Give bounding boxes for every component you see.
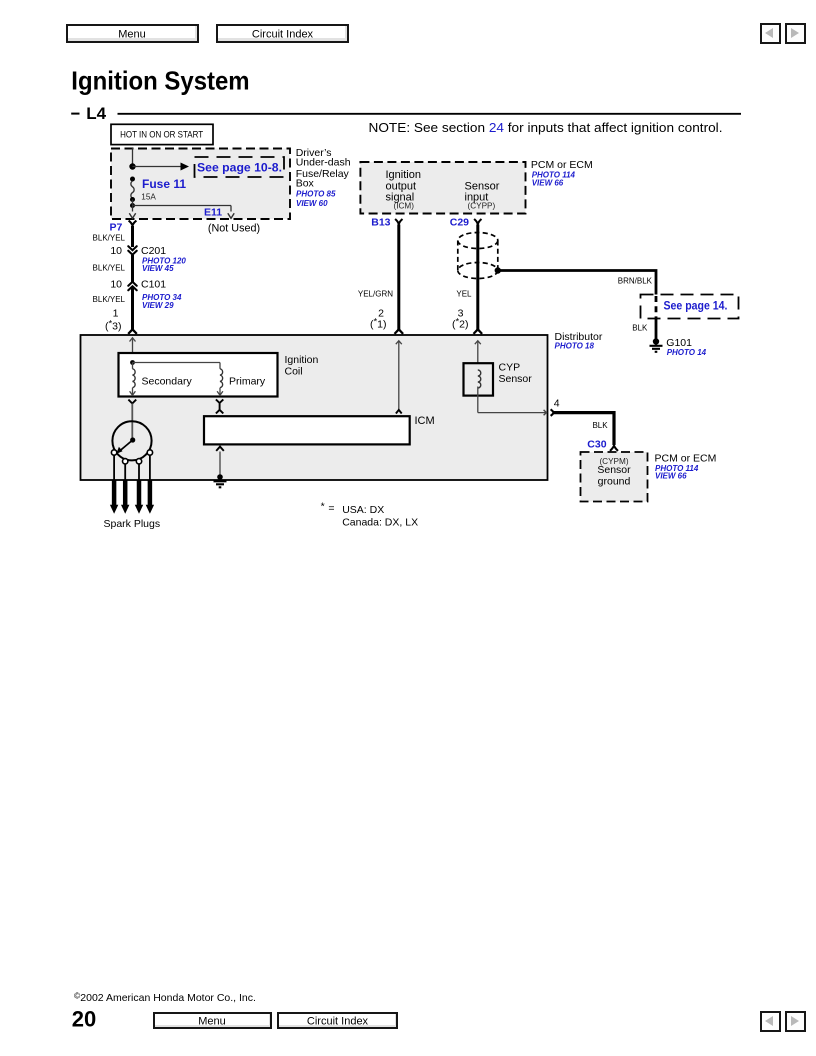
svg-text:YEL/GRN: YEL/GRN [358, 290, 393, 299]
svg-text:Ignition: Ignition [285, 354, 319, 366]
svg-text:Ignition System: Ignition System [71, 65, 249, 95]
svg-text:10: 10 [110, 279, 122, 291]
svg-text:Ignition: Ignition [386, 169, 421, 181]
svg-text:Sensor: Sensor [597, 464, 631, 476]
svg-text:=: = [328, 503, 334, 515]
svg-text:PHOTO 85: PHOTO 85 [296, 190, 336, 199]
svg-text:VIEW 66: VIEW 66 [532, 179, 564, 188]
svg-text:PCM or ECM: PCM or ECM [655, 453, 717, 465]
svg-text:L4: L4 [86, 104, 106, 123]
svg-text:(Not Used): (Not Used) [208, 223, 260, 235]
svg-text:NOTE: See section 24 for input: NOTE: See section 24 for inputs that aff… [369, 120, 723, 135]
svg-text:*: * [321, 501, 325, 513]
svg-text:VIEW 29: VIEW 29 [142, 301, 174, 310]
svg-text:BLK: BLK [632, 324, 648, 333]
svg-text:BLK/YEL: BLK/YEL [93, 234, 126, 243]
svg-text:(*3): (*3) [105, 318, 122, 332]
svg-text:P7: P7 [110, 222, 123, 234]
svg-text:VIEW 66: VIEW 66 [655, 472, 687, 481]
svg-text:©2002 American Honda Motor Co.: ©2002 American Honda Motor Co., Inc. [74, 991, 256, 1005]
svg-text:1: 1 [113, 308, 119, 320]
svg-text:Menu: Menu [118, 28, 146, 40]
svg-text:PHOTO 14: PHOTO 14 [667, 348, 707, 357]
svg-text:Spark Plugs: Spark Plugs [104, 518, 161, 530]
svg-text:15A: 15A [141, 193, 156, 202]
svg-text:C29: C29 [450, 217, 469, 229]
svg-text:Circuit Index: Circuit Index [307, 1016, 369, 1028]
svg-text:BLK/YEL: BLK/YEL [93, 295, 126, 304]
svg-text:Fuse 11: Fuse 11 [142, 177, 186, 191]
svg-text:Circuit Index: Circuit Index [252, 28, 314, 40]
svg-text:output: output [386, 180, 417, 192]
svg-text:PCM or ECM: PCM or ECM [531, 159, 593, 171]
svg-text:Sensor: Sensor [499, 373, 533, 385]
svg-text:Under-dash: Under-dash [296, 157, 351, 169]
svg-text:20: 20 [72, 1006, 96, 1031]
svg-text:ICM: ICM [415, 415, 435, 427]
svg-text:E11: E11 [204, 206, 222, 218]
svg-text:BRN/BLK: BRN/BLK [618, 277, 653, 286]
svg-text:Secondary: Secondary [142, 376, 193, 388]
svg-text:YEL: YEL [456, 290, 472, 299]
svg-text:B13: B13 [371, 217, 390, 229]
svg-text:BLK/YEL: BLK/YEL [93, 264, 126, 273]
svg-text:Primary: Primary [229, 376, 266, 388]
svg-text:C30: C30 [587, 439, 606, 451]
svg-text:10: 10 [110, 245, 122, 257]
svg-text:HOT IN ON OR START: HOT IN ON OR START [120, 130, 203, 141]
svg-text:USA: DX: USA: DX [342, 504, 384, 516]
svg-text:Sensor: Sensor [465, 180, 500, 192]
svg-text:VIEW 60: VIEW 60 [296, 199, 328, 208]
svg-text:Menu: Menu [198, 1016, 226, 1028]
svg-text:PHOTO 18: PHOTO 18 [555, 342, 595, 351]
svg-text:(*2): (*2) [452, 316, 469, 330]
svg-text:Box: Box [296, 178, 315, 190]
svg-text:(*1): (*1) [370, 316, 387, 330]
svg-text:BLK: BLK [592, 421, 608, 430]
svg-text:VIEW 45: VIEW 45 [142, 264, 174, 273]
svg-text:Canada: DX, LX: Canada: DX, LX [342, 516, 418, 528]
svg-text:(ICM): (ICM) [394, 201, 415, 210]
svg-text:See page 10-8.: See page 10-8. [197, 161, 282, 175]
svg-text:Coil: Coil [285, 366, 303, 378]
svg-text:(CYPP): (CYPP) [468, 201, 496, 210]
svg-text:4: 4 [554, 397, 560, 409]
svg-text:ground: ground [598, 476, 631, 488]
svg-text:CYP: CYP [499, 362, 521, 374]
svg-text:See page 14.: See page 14. [664, 300, 728, 312]
svg-text:C101: C101 [141, 279, 166, 291]
